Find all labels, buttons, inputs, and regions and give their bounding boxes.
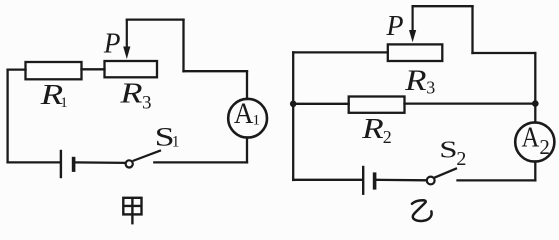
junction node dot (left, circuit 乙) [290,101,297,108]
ammeter A1: circle [228,99,267,138]
svg-text:1: 1 [253,113,261,129]
switch S1: lever [133,150,161,161]
battery (circuit 乙): short thick plate [373,172,377,189]
wire: upper right vertical of circuit 乙 [471,6,473,53]
svg-text:1: 1 [60,95,67,111]
wire: vertical from ammeter A1 bottom [246,138,248,163]
wire: middle branch left segment to R2 [293,103,349,105]
resistor R3 rheostat body (circuit 乙) [388,44,443,61]
svg-text:A: A [522,122,540,153]
potentiometer wiper arrow P (circuit 乙) [409,6,416,42]
wire: top wire of circuit 乙 [413,5,473,7]
wire: left vertical of circuit 乙 [292,52,294,180]
wire: bottom wire left segment of circuit 甲 [8,161,61,163]
wire: top-left horizontal of circuit 乙 [293,51,388,53]
wire: middle branch right segment from R2 [405,102,536,104]
svg-text:3: 3 [142,92,152,113]
wire: bottom wire left segment of circuit 乙 [293,179,363,181]
switch S2: pivot circle [427,177,435,185]
caption 乙 (hand-drawn) [412,200,432,221]
wire: horizontal to ammeter A1 top branch [184,70,248,72]
svg-text:2: 2 [383,127,392,147]
wire: right rail vertical down to ammeter A2 [534,53,536,123]
battery (circuit 甲): short thick plate [72,157,76,172]
wire: bottom wire right segment of circuit 甲 [154,161,247,163]
wire: left vertical to R1 left terminal [8,68,26,70]
battery (circuit 甲): long plate [60,150,62,178]
wire: bottom wire from battery to switch pivot [75,161,126,164]
svg-text:P: P [103,28,121,59]
wire: vertical into ammeter A1 top [246,71,248,99]
wire: bottom wire right segment of circuit 乙 [458,179,536,181]
wire: bottom wire battery-to-switch segment [376,179,426,182]
svg-text:A: A [234,98,254,130]
wire: R1 to R3 [82,68,105,70]
svg-text:P: P [386,10,404,42]
svg-text:S: S [439,136,457,163]
svg-text:2: 2 [539,135,550,159]
switch S2: lever [434,168,457,178]
svg-text:3: 3 [426,78,435,98]
resistor R1 [26,62,82,79]
wire: vertical from ammeter A2 bottom [534,162,536,181]
resistor R2 [349,97,405,113]
wire: left vertical of circuit 甲 [6,70,8,163]
wire: horizontal to right rail [473,52,536,54]
caption 甲 (hand-drawn) [123,198,141,225]
potentiometer wiper arrow P (circuit 甲) [123,20,130,59]
wire: top wire of circuit 甲 [127,18,184,20]
junction node dot (right, circuit 乙) [532,100,539,107]
resistor R3 (rheostat body, circuit 甲) [105,61,158,77]
svg-text:1: 1 [172,134,180,151]
svg-text:2: 2 [456,148,466,170]
ammeter A2: circle [515,122,554,161]
battery (circuit 乙): long plate [362,166,364,195]
switch S1: pivot circle [126,160,133,167]
svg-text:R: R [404,64,427,97]
wire: right upper vertical of circuit 甲 [182,20,184,72]
svg-text:R: R [361,113,384,145]
svg-text:R: R [119,78,143,110]
